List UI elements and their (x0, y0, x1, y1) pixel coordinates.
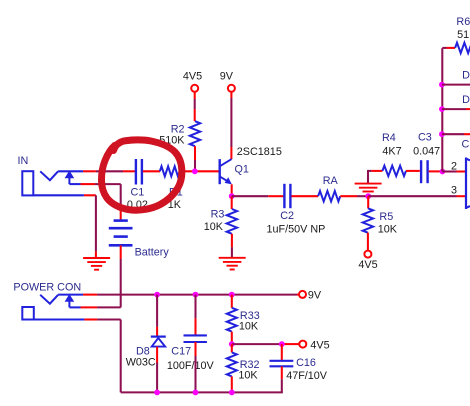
resistor RA (318, 191, 340, 201)
junction dot C16 top (279, 341, 285, 347)
wire C3 to node C (429, 170, 441, 172)
label R33 (240, 310, 260, 322)
ground below R3 (219, 258, 246, 270)
value C17 100F/10V (167, 360, 215, 372)
label C17 (171, 346, 191, 358)
svg-text:4V5: 4V5 (358, 259, 377, 271)
value R6 51 (457, 29, 469, 41)
pin number 2 (451, 161, 457, 173)
svg-text:W03C: W03C (126, 357, 156, 369)
label R1 (169, 187, 183, 199)
junction dot D8 top (154, 292, 160, 298)
label 4V5 rail (310, 339, 329, 351)
wire C17 to bottom rail (194, 342, 196, 392)
wire R2 to node A (194, 146, 196, 169)
input jack J_IN (22, 171, 74, 196)
svg-text:9V: 9V (308, 289, 322, 301)
node C junction dot (440, 169, 446, 175)
wire R32 to bottom rail (231, 376, 233, 392)
wire stub to capacitor C (cut off) (442, 133, 470, 135)
resistor R3 (227, 209, 237, 234)
svg-text:D8: D8 (136, 345, 150, 357)
label D8 (136, 345, 150, 357)
svg-text:10K: 10K (378, 224, 398, 236)
value C1 0.02 (127, 199, 148, 211)
value C16 47F/10V (286, 370, 328, 382)
wire 9V rail (58, 294, 299, 296)
label C1 (131, 187, 145, 199)
svg-text:47F/10V: 47F/10V (286, 370, 328, 382)
wire R33 to 4V5 node (231, 332, 233, 342)
svg-text:C16: C16 (296, 357, 316, 369)
label R5 (379, 211, 393, 223)
node B junction dot (365, 193, 371, 199)
terminal 9V rail (299, 291, 306, 298)
wire 9V to Q1 collector (230, 92, 232, 159)
junction dot R33 top (229, 292, 235, 298)
resistor R33 (227, 308, 237, 332)
wire POWER CON sleeve down (34, 320, 121, 393)
label RA (323, 175, 339, 187)
wire IN sleeve to ground (33, 195, 96, 258)
wire 4V5 node to R32 (231, 344, 233, 352)
junction dot C17 bottom (193, 390, 199, 396)
svg-text:R3: R3 (211, 208, 225, 220)
value C2 1uF/50V NP (267, 223, 326, 235)
value R5 10K (378, 224, 398, 236)
resistor R5 (363, 208, 373, 232)
value R4 4K7 (382, 146, 401, 158)
wire IN switch to battery + (69, 184, 120, 220)
wire 9V rail to D8 (156, 295, 158, 337)
wire node B to op-amp pin 3 (368, 195, 465, 197)
wire R4 to C3 (406, 170, 420, 172)
capacitor C2 (284, 184, 290, 208)
label R6 (456, 16, 470, 28)
value R33 10K (239, 321, 259, 333)
value R3 10K (204, 221, 224, 233)
wire 9V rail to R33 (231, 295, 233, 308)
svg-text:C2: C2 (280, 210, 294, 222)
svg-text:POWER CON: POWER CON (13, 281, 81, 293)
svg-text:10K: 10K (239, 321, 259, 333)
wire RA to node B (340, 195, 367, 197)
annotation: hand-drawn red circle around C1 (101, 140, 181, 210)
svg-text:4V5: 4V5 (183, 71, 202, 83)
svg-text:9V: 9V (220, 71, 234, 83)
svg-text:Q1: Q1 (235, 164, 249, 176)
resistor R1 (160, 166, 180, 176)
label C3 (418, 131, 432, 143)
value C3 0.047 (413, 146, 440, 158)
svg-text:10K: 10K (238, 369, 258, 381)
wire stub to diode D lower (cut off) (442, 108, 470, 110)
value R32 10K (238, 369, 258, 381)
svg-text:C: C (462, 139, 470, 151)
terminal 9V top (228, 85, 235, 92)
wire Q1 emitter down (231, 184, 233, 194)
svg-text:4V5: 4V5 (310, 339, 329, 351)
capacitor C17 (184, 335, 207, 342)
resistor R4 (382, 166, 406, 176)
wire stub to diode D (cut off) (442, 84, 470, 86)
wire D8 to bottom rail (156, 347, 158, 393)
svg-text:IN: IN (18, 155, 29, 167)
value D8 W03C (126, 357, 156, 369)
junction dot D8 bottom (154, 390, 160, 396)
wire C16 to bottom rail (281, 366, 283, 392)
terminal 4V5 mid (364, 251, 371, 258)
svg-text:C1: C1 (131, 187, 145, 199)
svg-text:3: 3 (451, 184, 457, 196)
resistor R2 (190, 121, 200, 146)
label 4V5 top (183, 71, 202, 83)
op-amp U1 (partially off-page) (465, 158, 470, 210)
label IN (18, 155, 29, 167)
label R2 (171, 124, 185, 136)
wire node to R3 (231, 196, 233, 209)
svg-text:2: 2 (451, 161, 457, 173)
capacitor C3 (421, 160, 428, 183)
wire R4 to ground pin (367, 171, 369, 184)
diode D8 W03C (151, 337, 166, 347)
junction dot D stub 1 (439, 82, 445, 88)
terminal 4V5 top (191, 85, 198, 92)
label 9V top (220, 71, 234, 83)
wire 9V rail to C17 (194, 295, 196, 336)
wire C1 to R1 (143, 170, 160, 172)
wire 4V5 rail (232, 343, 299, 345)
label R4 (382, 132, 396, 144)
junction dot D stub 2 (439, 106, 445, 112)
svg-text:D: D (462, 69, 470, 81)
label 9V rail (308, 289, 322, 301)
label POWER CON (13, 281, 81, 293)
svg-text:C17: C17 (171, 346, 191, 358)
label Q1 (235, 164, 249, 176)
svg-text:R4: R4 (382, 132, 396, 144)
svg-text:RA: RA (323, 175, 339, 187)
resistor R6 (partially off-page) (455, 43, 470, 53)
wire IN tip to C1 (58, 170, 135, 172)
svg-text:C3: C3 (418, 131, 432, 143)
label C (cut off) (462, 139, 470, 151)
svg-text:100F/10V: 100F/10V (167, 360, 215, 372)
label R32 (240, 359, 260, 371)
ground above node B (355, 184, 382, 192)
capacitor C1 (136, 159, 142, 185)
svg-text:2SC1815: 2SC1815 (237, 146, 282, 158)
label R3 (211, 208, 225, 220)
wire R3 to ground (231, 234, 233, 258)
transistor Q1 2SC1815 (220, 159, 232, 184)
pin number 3 (451, 184, 457, 196)
junction dot C17 top (193, 292, 199, 298)
wire emitter node to C2 (232, 195, 284, 197)
junction dot R32 bottom (229, 390, 235, 396)
svg-text:10K: 10K (204, 221, 224, 233)
wire battery - to POWER CON switch (69, 245, 120, 307)
power connector J_PWR (22, 294, 74, 320)
emitter node junction dot (229, 193, 235, 199)
svg-text:0.047: 0.047 (413, 146, 440, 158)
svg-text:4K7: 4K7 (382, 146, 401, 158)
label C2 (280, 210, 294, 222)
value Q1 2SC1815 (237, 146, 282, 158)
wire 4V5 to R2 (194, 92, 196, 121)
wire vertical bus to R6 (441, 48, 443, 171)
resistor R32 (227, 352, 237, 376)
wire R1 to Q1 base (180, 170, 219, 172)
svg-text:51: 51 (457, 29, 469, 41)
junction dot R33/R32 (229, 341, 235, 347)
value R1 1K (168, 199, 182, 211)
junction dot C stub (439, 131, 445, 137)
wire bottom ground rail (121, 391, 283, 393)
wire 4V5 rail to C16 (281, 344, 283, 361)
svg-text:R5: R5 (379, 211, 393, 223)
terminal 4V5 rail (299, 341, 306, 348)
svg-text:Battery: Battery (135, 246, 170, 258)
wire R5 to 4V5 terminal (367, 233, 369, 251)
label 4V5 mid (358, 259, 377, 271)
wire ground corner to R4 (367, 170, 382, 172)
node A junction dot (192, 168, 198, 174)
label Battery (135, 246, 170, 258)
svg-text:1uF/50V NP: 1uF/50V NP (267, 223, 326, 235)
value R2 510K (159, 134, 185, 146)
wire bus corner to R6 (442, 47, 455, 49)
ground below IN jack (83, 258, 110, 270)
svg-text:R6: R6 (456, 16, 470, 28)
battery BT1 (109, 221, 133, 246)
label D (cut off) upper (462, 69, 470, 81)
svg-text:D: D (462, 94, 470, 106)
wire node C to op-amp pin 2 (442, 170, 465, 172)
label C16 (296, 357, 316, 369)
capacitor C16 (270, 361, 294, 367)
wire node B to R5 (367, 196, 369, 208)
label D (cut off) lower (462, 94, 470, 106)
wire C2 to RA (291, 195, 318, 197)
